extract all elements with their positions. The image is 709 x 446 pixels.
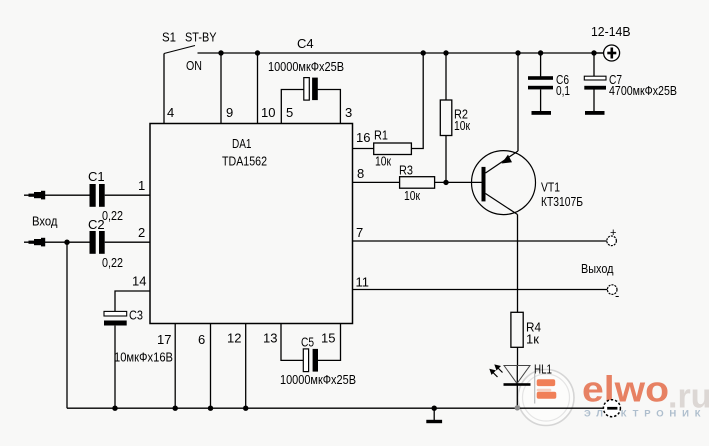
IC DA1 TDA1562 body: [150, 124, 353, 324]
capacitor C5 plates: [303, 349, 318, 372]
svg-text:12: 12: [227, 331, 241, 346]
svg-text:HL1: HL1: [534, 362, 552, 377]
svg-text:10к: 10к: [454, 118, 470, 133]
svg-text:elwo: elwo: [582, 369, 669, 410]
wire VT1 emitter to supply: [517, 53, 519, 151]
wire C2 to pin 2: [105, 241, 150, 243]
input connector arrow 2: [29, 238, 46, 247]
wire pin 12 vertical: [245, 324, 247, 409]
LED HL1: [489, 364, 530, 385]
svg-text:10мкФх16В: 10мкФх16В: [114, 350, 173, 365]
svg-text:1: 1: [138, 178, 145, 193]
svg-text:КТ3107Б: КТ3107Б: [541, 194, 583, 209]
resistor R3: [400, 177, 435, 189]
svg-text:14: 14: [132, 274, 146, 289]
svg-text:R1: R1: [374, 128, 388, 143]
node junction top rail C7: [591, 50, 596, 55]
svg-text:ST-BY: ST-BY: [185, 30, 217, 45]
svg-text:1к: 1к: [526, 332, 539, 347]
node junction bottom pin17: [173, 406, 178, 411]
svg-text:12-14В: 12-14В: [591, 24, 631, 39]
power terminal plus circle: [604, 45, 620, 61]
svg-text:0,1: 0,1: [556, 83, 570, 98]
node junction top rail pin9: [218, 50, 223, 55]
wire LED to bottom rail: [516, 366, 518, 409]
svg-text:C2: C2: [88, 217, 105, 232]
wire pin 8 to R3: [353, 181, 400, 183]
svg-text:4700мкФх25В: 4700мкФх25В: [609, 83, 677, 98]
resistor R4: [511, 312, 523, 347]
resistor R1: [374, 143, 412, 155]
svg-text:8: 8: [357, 166, 364, 181]
node junction bottom pin6: [208, 406, 213, 411]
svg-text:10к: 10к: [404, 188, 420, 203]
svg-text:ЭЛЕКТРОНИК: ЭЛЕКТРОНИК: [584, 409, 706, 420]
capacitor C7 plates: [584, 76, 606, 89]
svg-text:ON: ON: [186, 58, 202, 73]
wire C7 top: [593, 53, 595, 77]
svg-text:TDA1562: TDA1562: [222, 154, 267, 169]
wire pin 7 to output plus: [353, 240, 607, 242]
wire C1 to pin 1: [105, 194, 150, 196]
svg-text:17: 17: [157, 332, 171, 347]
ground below C6: [532, 111, 552, 115]
node junction top rail C6: [538, 50, 543, 55]
svg-text:0,22: 0,22: [102, 255, 123, 270]
wire C5 to pin 15: [318, 324, 341, 361]
node junction top rail R1: [421, 50, 426, 55]
svg-text:C3: C3: [129, 308, 143, 323]
node junction R2 base: [443, 180, 448, 185]
output terminal minus: [607, 285, 617, 295]
wire C3 to bottom rail: [114, 326, 116, 409]
wire top supply rail: [198, 52, 604, 54]
supply minus terminal: [603, 400, 620, 417]
wire pin 10 vertical: [257, 53, 259, 124]
svg-text:R3: R3: [399, 163, 413, 178]
wire pin 14 to C3: [115, 291, 150, 311]
svg-text:7: 7: [356, 225, 363, 240]
wire input 1 left: [24, 194, 90, 196]
svg-text:6: 6: [198, 332, 205, 347]
wire R2 bottom: [445, 136, 447, 183]
wire VT1 collector down: [517, 215, 519, 313]
wire pin 11 to output minus: [353, 289, 608, 291]
wire supply terminal stub: [594, 52, 604, 54]
svg-text:4: 4: [167, 105, 174, 120]
svg-text:C4: C4: [297, 36, 314, 51]
resistor R2: [440, 100, 452, 136]
wire bottom ground rail: [67, 407, 603, 409]
svg-text:VT1: VT1: [541, 180, 560, 195]
svg-text:10000мкФх25В: 10000мкФх25В: [268, 59, 344, 74]
watermark icon E bars: [537, 379, 557, 398]
capacitor C2 plates: [90, 231, 105, 254]
wire R1 to supply rail: [411, 53, 423, 149]
svg-text:15: 15: [321, 331, 335, 346]
wire input ground rail: [66, 242, 68, 408]
ground middle: [426, 408, 442, 423]
input connector arrow 1: [29, 191, 46, 200]
wire C6 top: [540, 53, 542, 77]
svg-text:10: 10: [261, 105, 275, 120]
svg-text:13: 13: [263, 331, 277, 346]
watermark icon line: [534, 374, 536, 404]
wire pin 4 vertical: [163, 54, 165, 125]
svg-text:2: 2: [138, 225, 145, 240]
wire pin 9 vertical: [220, 53, 222, 124]
wire pin 17 vertical: [174, 324, 176, 409]
wire R4 to LED: [517, 347, 519, 365]
output terminal plus: [607, 236, 617, 246]
svg-text:5: 5: [286, 105, 293, 120]
svg-text:10000мкФх25В: 10000мкФх25В: [280, 372, 356, 387]
switch S1 arm: [164, 46, 195, 54]
node junction bottom LED: [515, 405, 520, 410]
wire pin 5 to C4: [281, 90, 304, 125]
svg-text:DA1: DA1: [232, 136, 252, 151]
node junction top rail pin10: [255, 50, 260, 55]
node junction bottom C3: [112, 406, 117, 411]
node junction top rail VT1 emitter: [515, 50, 520, 55]
svg-text:C5: C5: [301, 335, 314, 350]
node junction input 2: [64, 240, 69, 245]
svg-text:16: 16: [356, 130, 370, 145]
node junction bottom ground: [432, 406, 437, 411]
wire C7 bottom: [593, 90, 595, 112]
wire R3 to base: [435, 181, 482, 183]
watermark circle: [518, 370, 574, 426]
wire pin 6 vertical: [210, 324, 212, 409]
svg-text:-: -: [615, 288, 619, 303]
svg-text:Выход: Выход: [581, 261, 614, 276]
svg-text:Вход: Вход: [32, 214, 58, 229]
wire R2 top: [445, 53, 447, 100]
svg-text:3: 3: [345, 105, 352, 120]
svg-text:C1: C1: [88, 169, 105, 184]
ground below C7: [585, 111, 605, 115]
svg-text:+: +: [610, 227, 616, 239]
svg-text:9: 9: [226, 105, 233, 120]
transistor VT1: [472, 151, 536, 215]
svg-text:S1: S1: [162, 30, 176, 45]
capacitor C6 plates: [528, 76, 553, 89]
svg-text:11: 11: [356, 275, 370, 290]
node junction top rail R2: [443, 50, 448, 55]
node junction bottom pin12: [243, 406, 248, 411]
wire input 2 left: [24, 241, 90, 243]
svg-text:10к: 10к: [375, 154, 391, 169]
capacitor C1 plates: [90, 184, 105, 207]
wire C6 bottom: [540, 90, 542, 112]
wire C4 to pin 3: [318, 90, 341, 125]
wire pin 13 to C5: [281, 324, 303, 361]
svg-text:0,22: 0,22: [102, 208, 123, 223]
capacitor C3 plates: [104, 311, 127, 325]
capacitor C4 plates: [304, 78, 318, 101]
wire pin 16 to R1: [353, 148, 374, 150]
